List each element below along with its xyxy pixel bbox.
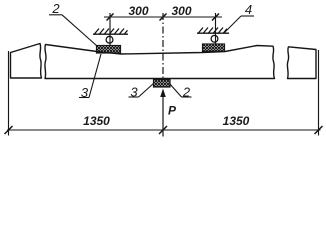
right support hatched ceiling bbox=[197, 28, 229, 34]
bottom tick centre bbox=[159, 126, 167, 134]
bottom left extension line bbox=[8, 51, 10, 136]
centre line (dash-dot) bbox=[162, 13, 164, 80]
left support pad (item 2) bbox=[97, 46, 121, 54]
svg-text:1350: 1350 bbox=[83, 114, 110, 128]
bottom tick left bbox=[5, 126, 13, 134]
label 3 centre with leader bbox=[129, 83, 155, 100]
svg-text:300: 300 bbox=[171, 4, 191, 18]
left support roller bbox=[106, 36, 113, 43]
right support pad (item 4) bbox=[203, 44, 225, 52]
label 4 top right bbox=[224, 2, 254, 33]
svg-text:2: 2 bbox=[51, 1, 60, 16]
top tick centre bbox=[160, 14, 167, 21]
label 2 centre right with leader bbox=[170, 84, 192, 100]
label 3 left with leader bbox=[79, 54, 101, 100]
left support hatched ceiling bbox=[93, 29, 128, 35]
left support extension line bbox=[109, 13, 111, 45]
top dimension line bbox=[104, 16, 222, 18]
svg-text:4: 4 bbox=[245, 2, 252, 17]
bottom tick right bbox=[315, 126, 323, 134]
top tick left bbox=[107, 14, 114, 21]
svg-text:300: 300 bbox=[128, 4, 148, 18]
beam middle section bbox=[45, 45, 275, 79]
right support extension line bbox=[215, 13, 217, 44]
label 2 top left bbox=[49, 1, 97, 46]
bottom right extension line bbox=[318, 50, 320, 136]
center load pad (item 2/3) bbox=[154, 79, 171, 87]
force P arrow bbox=[160, 89, 166, 137]
beam left section bbox=[11, 44, 42, 79]
bottom dimension line bbox=[7, 129, 321, 131]
top tick right bbox=[212, 14, 219, 21]
right support roller bbox=[211, 35, 218, 42]
svg-text:1350: 1350 bbox=[223, 114, 250, 128]
svg-text:Р: Р bbox=[168, 104, 177, 118]
beam right section bbox=[287, 47, 316, 79]
